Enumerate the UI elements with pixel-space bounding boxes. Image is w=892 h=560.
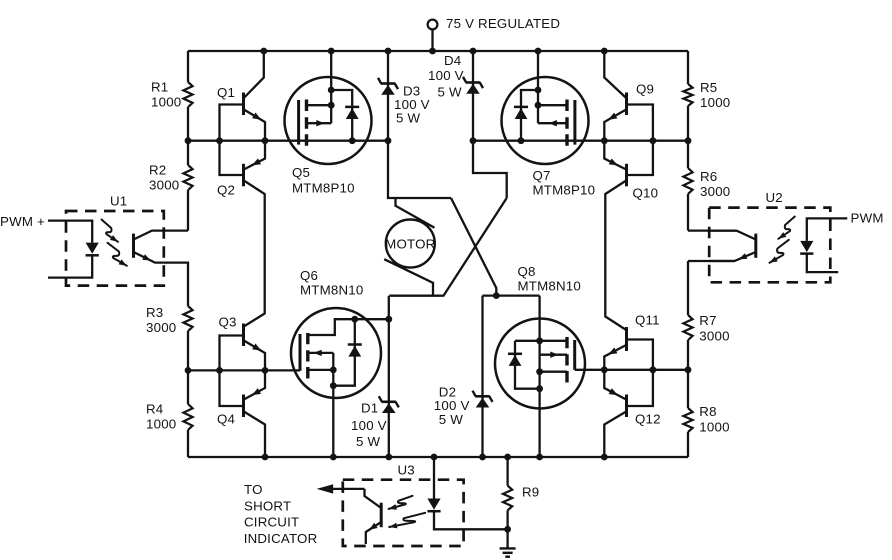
wire right rail R6 to U2 collector [687,194,689,231]
svg-text:R7: R7 [699,313,716,328]
transistor Q12 collector [604,412,626,458]
junction Q8 source lead [536,368,543,375]
transistor Q10 base bar [625,164,628,187]
terminal 75V input circle [428,20,438,30]
junction node D emitters [601,366,608,373]
optocoupler U1 collector [134,231,164,240]
transistor Q10 emitter [604,141,626,170]
svg-text:3000: 3000 [149,178,179,193]
mosfet Q7 body diode branch [521,90,538,141]
svg-text:CIRCUIT: CIRCUIT [244,515,299,530]
junction top rail Q9 [601,48,608,55]
motor M1 circle [386,220,435,268]
optocoupler U3 light arrow 2 [389,513,425,527]
wire left rail R2 to U1 collector [187,190,189,231]
junction bottom rail U3 [431,454,438,461]
wire R9 to ground [506,510,508,548]
wire Q9-Q10 base tie [627,105,653,176]
mosfet Q7 channel bar [565,100,568,146]
wire left rail R3-R4 [187,331,189,404]
junction bottom rail D1 [385,454,392,461]
optocoupler U1 emitter [134,252,164,263]
mosfet Q5 body diode branch [331,90,352,141]
junction bottom rail Q4 [262,454,269,461]
junction Q7 diode-drain [518,137,525,144]
transistor Q4 emitter arrow [252,388,261,395]
transistor Q10 emitter arrow [609,159,618,166]
svg-text:D4: D4 [444,53,461,68]
optocoupler U1 light arrow 1 [102,220,119,242]
motor M1 top lead [396,198,435,228]
wire U2 collector to right rail [688,229,737,231]
transistor Q4 emitter [244,370,265,399]
wire lower-left node row [188,369,300,371]
mosfet Q6 source column [332,353,334,457]
mosfet Q8 body lead [540,354,567,356]
mosfet Q8 channel bar [565,337,568,383]
transistor Q9 emitter [604,110,626,141]
transistor Q12 emitter [604,370,626,400]
wire left rail R1-R2 [187,107,189,165]
junction R9-U3 node [504,526,511,533]
mosfet Q7 package circle [502,77,589,164]
svg-text:5 W: 5 W [438,85,462,100]
svg-text:MTM8N10: MTM8N10 [300,283,363,298]
optocoupler U1 emitter arrow [142,254,151,260]
mosfet Q5 body arrow [316,120,324,126]
optocoupler U3 phototransistor bar [380,503,383,528]
svg-text:100 V: 100 V [434,398,470,413]
wire crossover A to Q8 drain [451,198,496,296]
zener diode D3 [381,82,396,85]
transistor Q1 emitter [244,110,265,141]
mosfet Q7 drain lead [538,104,567,106]
optocoupler U2 emitter [709,252,756,261]
svg-text:Q3: Q3 [219,315,237,330]
svg-text:R2: R2 [149,163,166,178]
svg-text:R3: R3 [146,305,163,320]
optocoupler U3 light arrow 1 [389,496,413,509]
transistor Q9 emitter arrow [608,113,617,120]
optocoupler U2 phototransistor bar [754,234,757,258]
svg-text:3000: 3000 [700,184,730,199]
optocoupler U1 anode wire [48,221,92,243]
wire short-circuit indicator arrow shaft [330,488,365,490]
svg-text:3000: 3000 [699,329,729,344]
junction Q5 source-diode [328,87,335,94]
wire right rail R5-R6 [687,106,689,168]
zener diode D2 [475,395,490,398]
wire 75V terminal lead [431,30,433,51]
mosfet Q7 body diode [514,106,528,109]
junction top rail Q5 [328,48,335,55]
svg-text:R8: R8 [699,404,716,419]
junction Q7 source-drain lead [535,102,542,109]
svg-text:Q6: Q6 [300,268,318,283]
mosfet Q8 source lead [540,371,567,373]
mosfet Q8 drain column [538,296,540,457]
wire U2 emitter to right rail [688,260,735,262]
junction node B emitters [601,137,608,144]
wire Q10-Q11 collector tie [605,181,626,331]
mosfet Q8 body arrow [550,352,558,358]
junction Q5 source-drain lead [328,102,335,109]
resistor R2 [183,165,192,190]
junction Q8 drain-D2 [493,292,500,299]
svg-text:U2: U2 [766,190,783,205]
mosfet Q6 gate bar [299,334,302,371]
junction node B R5-R6 [685,137,692,144]
junction bottom rail R9 [504,454,511,461]
junction bottom rail D2 [479,454,486,461]
transistor Q1 collector [244,51,264,98]
mosfet Q6 source lead [308,369,334,371]
wire ground-side bottom rail [188,456,688,458]
ground symbol [500,547,516,549]
transistor Q2 base bar [242,164,245,187]
junction Q6 diode-drain [351,316,358,323]
mosfet Q7 body lead [538,122,567,124]
mosfet Q6 body diode branch [333,319,355,386]
svg-text:Q9: Q9 [636,82,654,97]
wire right rail U2 to R7 [687,261,689,315]
junction bottom rail Q12 [601,454,608,461]
transistor Q2 emitter arrow [252,158,261,165]
svg-text:SHORT: SHORT [244,498,291,513]
junction node B bases [650,137,657,144]
optocoupler U1 cathode wire [48,255,92,277]
svg-text:1000: 1000 [151,95,181,110]
wire Q1-Q2 base tie [220,105,244,176]
mosfet Q5 channel bar [305,100,308,146]
optocoupler U1 led [86,243,99,254]
svg-text:5 W: 5 W [439,412,463,427]
optocoupler U3 cathode wire [434,511,508,529]
transistor Q3 emitter [244,341,265,371]
optocoupler U2 cathode wire [807,254,838,273]
mosfet Q6 body arrow [314,350,322,356]
optocoupler U2 light arrow 2 [770,240,789,263]
mosfet Q5 source wire [330,51,332,123]
wire upper-left node row [188,140,388,142]
svg-text:Q11: Q11 [635,313,660,328]
mosfet Q8 drain wire [483,294,540,296]
mosfet Q7 gate bar [573,100,576,145]
mosfet Q5 package circle [285,77,372,164]
transistor Q11 emitter [604,345,626,370]
svg-text:U3: U3 [398,463,415,478]
optocoupler U3 emitter arrow [369,523,377,530]
zener diode D4 [466,81,481,84]
svg-text:1000: 1000 [700,95,730,110]
mosfet Q6 package circle [291,308,381,398]
svg-text:Q1: Q1 [217,85,235,100]
svg-text:100 V: 100 V [351,418,387,433]
transistor Q4 base bar [242,395,245,418]
wire Q5 drain to motor [388,141,451,198]
svg-text:MOTOR: MOTOR [385,236,435,251]
transistor Q11 emitter arrow [608,348,617,355]
optocoupler U2 led [800,241,813,252]
junction node C bases [216,367,223,374]
svg-text:MTM8N10: MTM8N10 [518,279,581,294]
junction node A bases [216,137,223,144]
zener diode D1 [382,400,397,403]
short-circuit indicator arrowhead [317,484,334,493]
junction node A D3 [385,137,392,144]
transistor Q12 emitter arrow [609,388,618,395]
mosfet Q5 body diode [345,106,359,109]
svg-text:1000: 1000 [146,417,176,432]
junction Q5 diode-drain [349,137,356,144]
svg-text:PWM +: PWM + [0,214,45,229]
svg-text:PWM: PWM [851,211,884,226]
junction top rail 75V [429,48,436,55]
optocoupler U2 emitter arrow [739,253,748,259]
optocoupler U1 light arrow 2 [108,243,127,266]
junction top rail D4 [470,48,477,55]
wire left rail top segment [187,51,189,82]
svg-text:Q12: Q12 [635,412,661,427]
mosfet Q5 body lead [307,122,332,124]
resistor R3 [183,306,192,331]
junction top rail Q1 [260,48,267,55]
transistor Q11 base bar [625,327,628,351]
resistor R4 [183,404,192,430]
junction Q6 diode-source [330,382,337,389]
transistor Q2 emitter [244,141,265,170]
optocoupler U2 collector [709,231,756,240]
junction node C emitters [262,367,269,374]
transistor Q1 base bar [242,93,245,116]
svg-text:R5: R5 [700,80,717,95]
junction Q8 drain lead [536,337,543,344]
mosfet Q6 channel bar [306,333,309,379]
svg-text:75 V REGULATED: 75 V REGULATED [446,16,560,31]
wire lower-right node row [575,369,688,371]
zener diode D2 branch [481,296,483,457]
optocoupler U2 box [709,208,830,283]
svg-text:Q5: Q5 [292,165,310,180]
resistor R7 [683,315,692,340]
svg-text:Q7: Q7 [533,168,551,183]
mosfet Q6 body lead [308,352,334,354]
wire bottom rail to R9 [506,457,508,486]
transistor Q1 emitter arrow [252,113,261,120]
junction bottom rail Q8 [536,454,543,461]
wire right rail bottom segment [687,432,689,457]
svg-text:5 W: 5 W [396,110,420,125]
junction node D R7-R8 [685,366,692,373]
optocoupler U3 anode wire [433,457,435,499]
junction bottom rail Q6 [330,454,337,461]
mosfet Q6 drain lead [308,319,389,335]
junction top rail D3 [385,48,392,55]
junction Q7 source-diode [535,87,542,94]
wire Q2-Q3 collector tie [244,181,265,327]
mosfet Q7 body arrow [549,120,557,126]
svg-text:Q2: Q2 [217,183,235,198]
resistor R9 [503,486,512,511]
resistor R6 [683,168,692,194]
transistor Q4 collector [244,412,265,458]
wire Q7 drain jog [473,141,507,198]
svg-text:3000: 3000 [146,320,176,335]
wire U1 collector to left rail [164,229,188,231]
svg-text:TO: TO [244,482,263,497]
junction Q6 drain-D1 [385,316,392,323]
svg-text:D1: D1 [361,401,378,416]
motor M1 bottom lead [384,259,433,296]
optocoupler U3 box [343,480,464,546]
svg-text:MTM8P10: MTM8P10 [292,181,355,196]
optocoupler U3 collector [365,489,382,508]
junction node B D4 [470,137,477,144]
optocoupler U3 led [427,499,440,510]
junction node C rail-R3 [185,367,192,374]
mosfet Q7 source wire [537,51,539,123]
svg-text:INDICATOR: INDICATOR [244,531,318,546]
svg-text:Q8: Q8 [518,264,536,279]
wire right rail R7-R8 [687,340,689,408]
wire upper-right node row [473,140,688,142]
resistor R5 [683,84,692,106]
junction top rail Q7 [535,48,542,55]
wire +75V top rail [188,50,688,52]
junction node D bases [650,366,657,373]
wire crossover B to motor bottom [389,198,506,296]
transistor Q3 base bar [242,324,245,347]
svg-text:R4: R4 [146,402,163,417]
zener diode D3 branch [387,51,389,141]
optocoupler U1 phototransistor bar [132,234,135,258]
zener diode D1 branch [388,296,390,457]
wire right rail top segment [687,51,689,84]
transistor Q3 emitter arrow [252,344,261,351]
wire U1 emitter to left rail [164,263,188,306]
svg-text:R9: R9 [522,485,539,500]
mosfet Q5 gate bar [297,100,300,145]
junction Q8 diode-source [536,385,543,392]
zener diode D4 branch [472,51,474,141]
svg-text:100 V: 100 V [428,68,464,83]
svg-text:R1: R1 [151,79,168,94]
transistor Q9 base bar [625,93,628,116]
junction Q6 source lead [330,367,337,374]
svg-text:U1: U1 [110,194,127,209]
resistor R1 [183,82,192,107]
junction node A rail-R2 [185,137,192,144]
optocoupler U3 emitter [366,522,381,544]
svg-text:1000: 1000 [699,420,729,435]
transistor Q9 collector [604,51,626,98]
svg-text:5 W: 5 W [356,434,380,449]
wire Q3-Q4 base tie [220,336,244,407]
optocoupler U1 box [66,211,164,286]
transistor Q12 base bar [625,395,628,418]
mosfet Q8 gate bar [573,340,576,370]
mosfet Q5 drain lead [307,104,332,106]
mosfet Q6 body diode [348,343,362,346]
mosfet Q8 package circle [495,319,585,409]
wire left rail bottom segment [187,430,189,457]
wire Q11-Q12 base tie [627,340,653,407]
svg-text:Q10: Q10 [633,186,659,201]
mosfet Q8 drain lead [515,340,567,342]
svg-text:R6: R6 [700,169,717,184]
optocoupler U2 anode wire [807,218,848,241]
junction node A emitters [262,137,269,144]
optocoupler U2 light arrow 1 [778,217,795,239]
mosfet Q8 body diode [508,353,522,356]
resistor R8 [683,408,692,432]
svg-text:MTM8P10: MTM8P10 [533,183,596,198]
svg-text:Q4: Q4 [217,412,235,427]
mosfet Q8 body diode branch [515,341,540,389]
